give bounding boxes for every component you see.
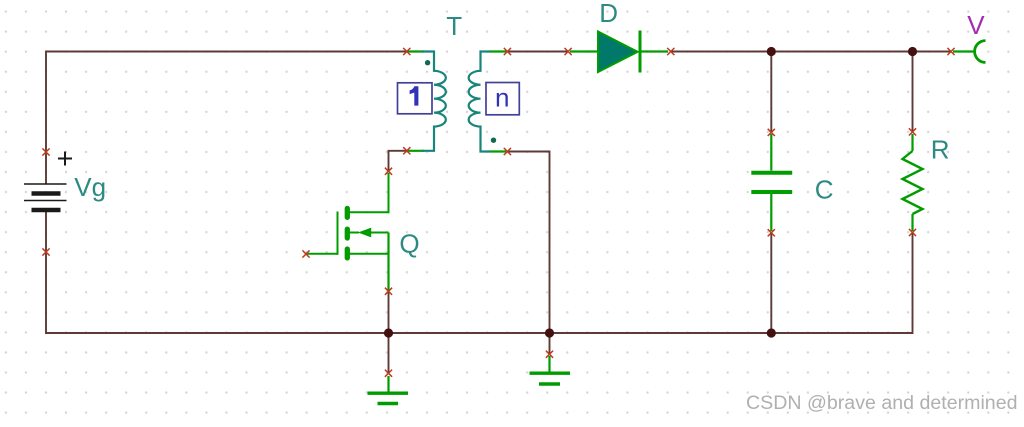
svg-text:V: V bbox=[967, 10, 985, 40]
svg-text:T: T bbox=[446, 11, 462, 41]
svg-text:R: R bbox=[931, 135, 950, 165]
svg-text:C: C bbox=[815, 174, 834, 204]
svg-text:D: D bbox=[599, 0, 618, 28]
svg-text:Q: Q bbox=[399, 228, 419, 258]
svg-text:CSDN @brave and determined: CSDN @brave and determined bbox=[746, 392, 1017, 414]
svg-text:Vg: Vg bbox=[74, 172, 106, 202]
svg-text:n: n bbox=[495, 82, 509, 112]
